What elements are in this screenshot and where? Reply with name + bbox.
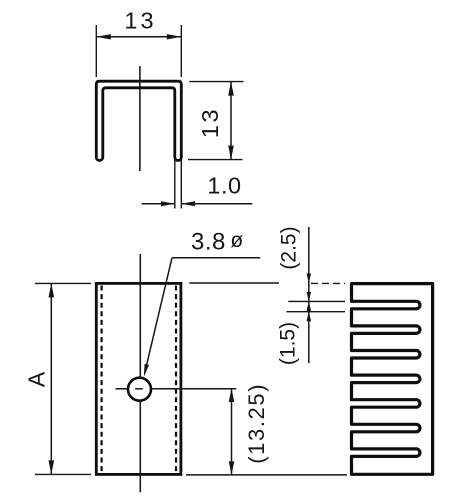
svg-text:A: A — [24, 371, 50, 387]
dim 13 (leg height) dimension line — [230, 82, 232, 160]
dim (2.5) arrows — [307, 274, 312, 284]
dim 1.0 dimension line with outside arrows — [142, 203, 175, 205]
dim (1.5) arrows — [307, 292, 312, 302]
leader line — [145, 258, 172, 373]
dim 13 (leg height) extension lines — [189, 81, 243, 83]
svg-text:(13.25): (13.25) — [244, 383, 269, 464]
svg-text:3.8ø: 3.8ø — [191, 229, 244, 256]
svg-text:(1.5): (1.5) — [276, 322, 299, 365]
dim (2.5)/(1.5) extension line slot1 bottom — [287, 311, 346, 313]
hole 3.8 dia — [128, 378, 151, 401]
dim 13 (top width) dimension line — [96, 36, 181, 38]
leader underline — [172, 257, 260, 259]
dim (2.5)/(1.5) extension line slot1 top — [288, 300, 345, 302]
leader arrow — [144, 364, 149, 377]
front view vertical center line — [139, 254, 141, 378]
dim (2.5)/(1.5) dimension line — [308, 227, 310, 363]
dim A extension lines — [35, 282, 91, 284]
svg-text:(2.5): (2.5) — [277, 226, 300, 269]
side view: finned heatsink outline — [352, 284, 433, 475]
dim 1.0 (wall thickness) extension lines — [174, 158, 176, 209]
front view hidden line left — [100, 286, 102, 474]
front view: body rectangle — [96, 283, 181, 474]
top view center line — [139, 66, 141, 171]
dim 13 (top width) extension lines — [95, 25, 97, 77]
hole horizontal center mark and extension to (13.25) — [116, 388, 128, 390]
svg-text:13: 13 — [124, 8, 156, 34]
dim (13.25) bottom extension line — [186, 474, 347, 476]
svg-text:13: 13 — [197, 107, 223, 138]
svg-text:1.0: 1.0 — [207, 173, 241, 199]
top view: U-channel outline — [96, 81, 181, 160]
dim (2.5)/(1.5) extension line top (fin top edge) — [189, 282, 279, 284]
front view hidden line right — [175, 286, 177, 474]
dim (13.25) dimension line — [231, 389, 233, 475]
dim A dimension line — [50, 283, 52, 474]
